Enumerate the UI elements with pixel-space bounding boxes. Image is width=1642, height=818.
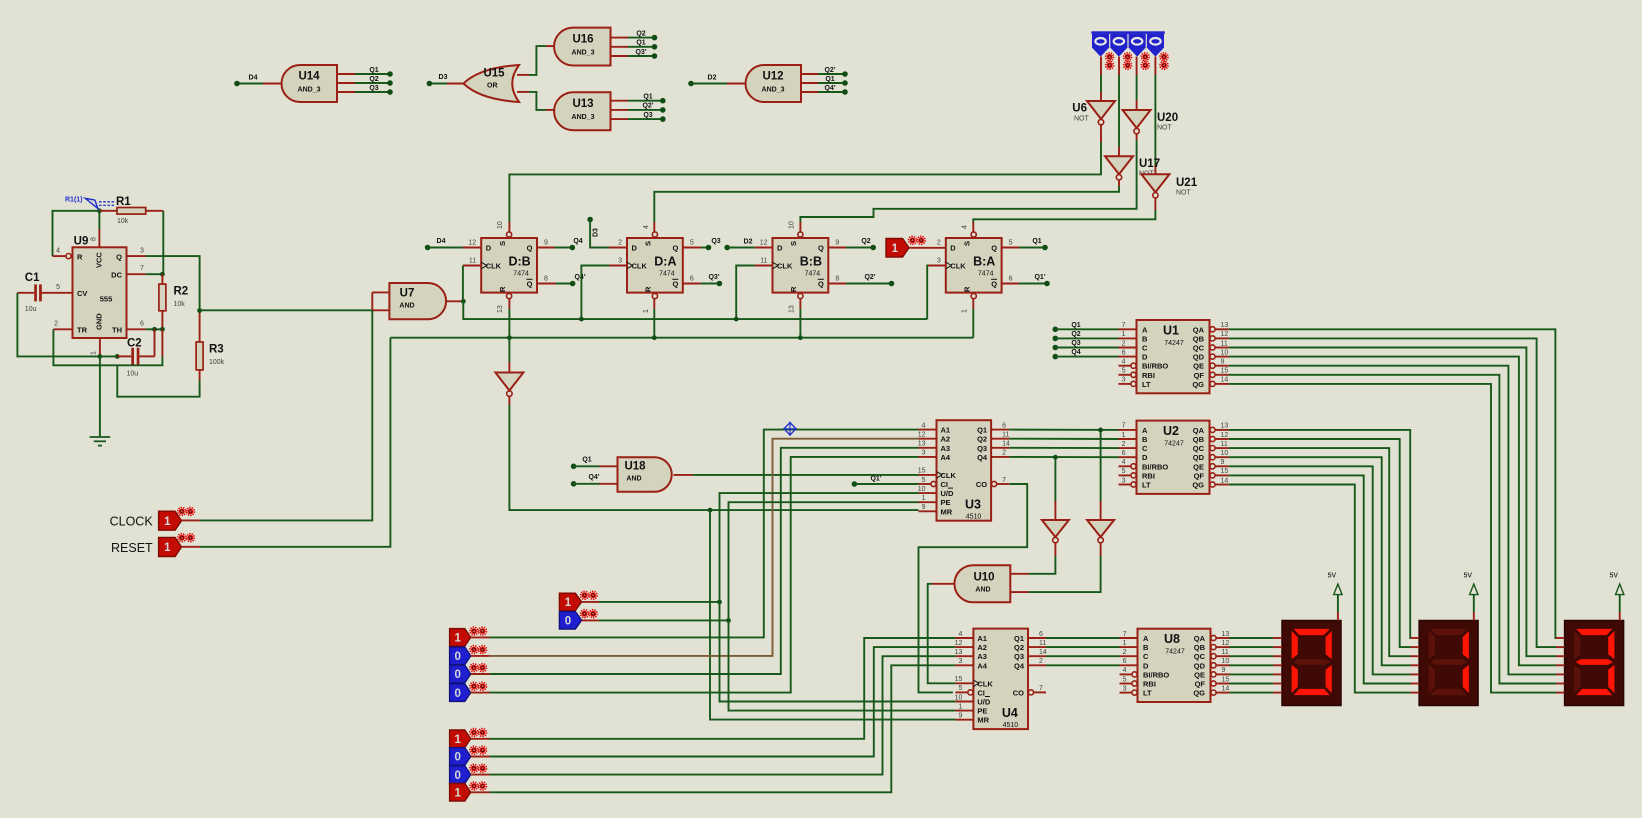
- svg-text:CLK: CLK: [977, 679, 993, 688]
- svg-text:9: 9: [1221, 359, 1225, 366]
- wire tag to U3 A4: [471, 457, 919, 693]
- flip-flop B:B (7474): [760, 221, 840, 313]
- svg-text:D:A: D:A: [654, 255, 676, 269]
- svg-text:R: R: [644, 286, 653, 292]
- terminal Q2-bar (B:B Qbar): [828, 274, 894, 287]
- svg-text:2: 2: [618, 240, 622, 247]
- wire B:B CLK riser: [736, 266, 772, 320]
- svg-text:74247: 74247: [1165, 649, 1185, 656]
- svg-text:15: 15: [1221, 368, 1229, 375]
- svg-text:6: 6: [1002, 422, 1006, 429]
- logic tag 0 (U3 A2): [450, 646, 487, 665]
- wire left NOT to U10 input 1: [1010, 543, 1055, 574]
- svg-text:Q: Q: [991, 280, 997, 289]
- svg-text:Q1: Q1: [1071, 322, 1080, 329]
- svg-text:7: 7: [1122, 423, 1126, 430]
- svg-text:4: 4: [1122, 359, 1126, 366]
- svg-text:7: 7: [1039, 685, 1043, 692]
- svg-text:U18: U18: [624, 461, 646, 473]
- svg-text:Q: Q: [116, 252, 122, 261]
- wire DIP cell2 to U17: [1118, 57, 1120, 157]
- wire RESET to reset line: [182, 338, 391, 547]
- svg-text:11: 11: [1222, 649, 1229, 656]
- svg-text:2: 2: [1123, 649, 1127, 656]
- svg-text:U16: U16: [572, 34, 593, 46]
- decoder U8 (74247): [1120, 629, 1230, 702]
- svg-text:D2: D2: [744, 239, 753, 246]
- timer U9 (555): [54, 236, 144, 356]
- svg-text:Q1: Q1: [643, 94, 652, 101]
- power 5V display 1: [1328, 573, 1342, 621]
- wire D:B CLK riser: [463, 266, 481, 302]
- svg-text:11: 11: [1002, 432, 1009, 439]
- svg-text:1: 1: [565, 597, 572, 609]
- svg-text:5V: 5V: [1609, 573, 1618, 580]
- svg-text:13: 13: [788, 305, 795, 313]
- svg-text:Q2: Q2: [861, 238, 870, 245]
- svg-text:14: 14: [1221, 477, 1229, 484]
- svg-text:10k: 10k: [174, 301, 186, 308]
- svg-text:6: 6: [1122, 450, 1126, 457]
- svg-text:Q2': Q2': [864, 274, 875, 281]
- svg-text:A2: A2: [941, 435, 951, 444]
- svg-text:1: 1: [922, 495, 926, 502]
- svg-text:Q1: Q1: [1032, 238, 1041, 245]
- svg-text:C: C: [1142, 444, 1148, 453]
- svg-text:3: 3: [1122, 477, 1126, 484]
- svg-text:Q1: Q1: [636, 40, 645, 47]
- wire Q pin 3 to R3 top node: [127, 256, 200, 310]
- svg-text:QA: QA: [1193, 426, 1205, 435]
- wire B:A R to reset line: [972, 299, 974, 338]
- svg-text:9: 9: [1222, 667, 1226, 674]
- wires U1 outputs to display 3: [1229, 329, 1565, 692]
- svg-text:CLK: CLK: [941, 471, 957, 480]
- svg-text:U7: U7: [400, 288, 415, 300]
- svg-text:10k: 10k: [117, 218, 129, 225]
- svg-text:Q: Q: [672, 244, 678, 253]
- svg-text:Q2: Q2: [977, 435, 987, 444]
- svg-text:AND: AND: [399, 303, 414, 310]
- svg-text:2: 2: [1039, 658, 1043, 665]
- svg-text:12: 12: [760, 240, 768, 247]
- svg-text:12: 12: [1221, 331, 1229, 338]
- svg-text:3: 3: [937, 258, 941, 265]
- svg-text:5: 5: [1122, 468, 1126, 475]
- AND gate U12 (AND_3, mirrored): [746, 65, 802, 102]
- svg-text:QG: QG: [1193, 689, 1205, 698]
- wire U16 output to U15 input: [517, 46, 554, 75]
- svg-text:15: 15: [1222, 676, 1230, 683]
- wire VCC pin 8: [98, 211, 100, 248]
- wire right NOT to U10 input 2: [1010, 543, 1100, 592]
- svg-text:U14: U14: [298, 71, 320, 83]
- svg-text:D4: D4: [249, 75, 258, 82]
- svg-text:Q: Q: [527, 244, 533, 253]
- svg-text:Q1: Q1: [977, 426, 987, 435]
- svg-text:2: 2: [54, 320, 58, 327]
- U7 input stubs: [372, 292, 389, 310]
- wire R3 bottom loop to TR line: [117, 365, 199, 396]
- svg-text:D2: D2: [708, 75, 717, 82]
- flip-flop B:A (7474): [937, 225, 1013, 313]
- svg-text:R: R: [789, 286, 798, 292]
- svg-text:OR: OR: [487, 83, 498, 90]
- svg-text:RBI: RBI: [1142, 371, 1155, 380]
- svg-text:R: R: [498, 286, 507, 292]
- logic tag 1 to B:A D input: [886, 236, 946, 257]
- terminal Q4-bar (D:B Qbar): [537, 274, 586, 287]
- svg-text:10: 10: [918, 486, 926, 493]
- svg-text:TR: TR: [77, 326, 88, 335]
- svg-text:LT: LT: [1142, 380, 1151, 389]
- svg-text:3: 3: [140, 247, 144, 254]
- logic tag 1 (U/D net): [559, 591, 597, 610]
- svg-text:CI: CI: [941, 480, 949, 489]
- svg-text:Q2: Q2: [1014, 643, 1024, 652]
- AND gate U10 (mirrored): [954, 565, 1010, 602]
- AND gate U16 (AND_3, mirrored): [554, 28, 610, 66]
- svg-text:S: S: [644, 241, 653, 246]
- wires U8 outputs to display 1: [1230, 638, 1274, 693]
- svg-text:14: 14: [1002, 441, 1010, 448]
- svg-text:13: 13: [497, 305, 504, 313]
- svg-text:QC: QC: [1193, 444, 1205, 453]
- svg-text:U/D: U/D: [941, 489, 955, 498]
- svg-text:6: 6: [1039, 631, 1043, 638]
- inverter U21 (NOT): [1141, 174, 1197, 198]
- 7-segment display 3 (digit 3): [1565, 621, 1624, 706]
- svg-text:A2: A2: [977, 643, 987, 652]
- terminal D2 (U12 output): [688, 75, 745, 87]
- capacitor C2 (10u): [117, 329, 154, 377]
- svg-text:14: 14: [1039, 649, 1047, 656]
- wire U6 output to D:B S pin: [509, 125, 1101, 232]
- svg-text:D: D: [486, 244, 492, 253]
- svg-text:R1(1): R1(1): [65, 197, 83, 204]
- wire PE net U3 to U4: [729, 502, 956, 710]
- svg-text:0: 0: [454, 651, 460, 663]
- wire D:B R to reset line: [508, 299, 510, 338]
- svg-text:Q2: Q2: [369, 76, 378, 83]
- svg-text:QB: QB: [1193, 435, 1205, 444]
- svg-text:74247: 74247: [1164, 340, 1184, 347]
- svg-text:5: 5: [958, 685, 962, 692]
- logic tag 1 (U4 A4): [450, 782, 487, 801]
- wires U4 outputs to U8 inputs: [1046, 638, 1120, 665]
- svg-text:3: 3: [922, 450, 926, 457]
- inverter U20 (NOT): [1123, 110, 1179, 134]
- svg-text:9: 9: [544, 240, 548, 247]
- wire U7 output junction: [447, 299, 466, 304]
- terminal Q3 (D:A Q): [683, 238, 721, 251]
- terminal D4 (U14 output): [234, 75, 281, 87]
- reset line B: [390, 335, 973, 340]
- terminal D3 (U15 output): [427, 74, 464, 86]
- svg-text:Q: Q: [818, 280, 824, 289]
- svg-text:U/D: U/D: [977, 698, 991, 707]
- svg-text:BI/RBO: BI/RBO: [1143, 670, 1169, 679]
- wire R1 node to R pin 4: [53, 211, 100, 259]
- svg-text:Q2': Q2': [824, 67, 835, 74]
- wire tag to U4 A1: [471, 638, 956, 739]
- svg-text:S: S: [498, 241, 507, 246]
- svg-text:AND: AND: [626, 476, 641, 483]
- svg-text:MR: MR: [977, 716, 989, 725]
- svg-text:5: 5: [1009, 240, 1013, 247]
- svg-text:R: R: [77, 252, 83, 261]
- wire tag to U4 A3: [471, 656, 956, 774]
- svg-text:Q4: Q4: [1071, 349, 1080, 356]
- terminal Q2 (B:B Q): [828, 238, 876, 251]
- flip-flop D:A (7474): [618, 225, 694, 313]
- DIP toggle arrows (red gear icons): [1106, 53, 1168, 70]
- svg-text:QB: QB: [1193, 334, 1205, 343]
- svg-text:QF: QF: [1195, 680, 1206, 689]
- wire R1 right to DC node: [162, 211, 164, 274]
- svg-text:D: D: [777, 244, 783, 253]
- wire MR line down to U4 MR: [710, 510, 956, 719]
- svg-text:AND_3: AND_3: [572, 114, 595, 121]
- svg-text:B:A: B:A: [973, 255, 995, 269]
- svg-text:7: 7: [1002, 477, 1006, 484]
- svg-text:QC: QC: [1193, 344, 1205, 353]
- svg-text:5: 5: [1123, 676, 1127, 683]
- svg-text:11: 11: [1221, 441, 1228, 448]
- svg-text:QB: QB: [1194, 643, 1206, 652]
- svg-text:QD: QD: [1193, 353, 1205, 362]
- OR gate U15 (mirrored): [464, 65, 520, 102]
- svg-text:NOT: NOT: [1074, 116, 1090, 123]
- svg-text:0: 0: [454, 770, 460, 782]
- svg-text:U17: U17: [1139, 158, 1160, 170]
- wire B:A CLK riser: [927, 266, 946, 320]
- wire TR pin 2 loop: [53, 329, 162, 365]
- svg-text:5V: 5V: [1328, 573, 1337, 580]
- svg-text:6: 6: [1122, 349, 1126, 356]
- svg-text:CLK: CLK: [632, 262, 648, 271]
- clock line A: [463, 301, 927, 321]
- svg-text:BI/RBO: BI/RBO: [1142, 462, 1168, 471]
- resistor R3 (100k): [196, 311, 225, 381]
- wires U2 outputs to display 2: [1229, 430, 1419, 693]
- svg-text:4: 4: [643, 225, 650, 229]
- wire GND pin 1: [98, 338, 103, 359]
- svg-text:R: R: [963, 286, 972, 292]
- svg-text:9: 9: [835, 240, 839, 247]
- wire U3 Q4 line to left NOT: [1054, 457, 1056, 520]
- svg-text:2: 2: [937, 240, 941, 247]
- svg-text:6: 6: [140, 320, 144, 327]
- capacitor C1 (10u): [17, 272, 72, 313]
- wire U18 output to U3 CLK: [674, 474, 919, 476]
- inverter below D:B (unlabeled NOT): [495, 338, 523, 397]
- tag CLOCK: [110, 507, 195, 530]
- svg-text:4: 4: [962, 225, 969, 229]
- svg-text:AND_3: AND_3: [298, 87, 321, 94]
- terminal Q1 (B:A Q): [1002, 238, 1048, 251]
- svg-text:7474: 7474: [513, 271, 529, 278]
- svg-text:Q1: Q1: [369, 67, 378, 74]
- svg-text:13: 13: [955, 649, 963, 656]
- svg-text:1: 1: [1122, 331, 1126, 338]
- wire inverter output to MR line: [509, 396, 918, 512]
- terminal Q3-bar (D:A Qbar): [683, 274, 722, 287]
- svg-text:D: D: [950, 244, 956, 253]
- svg-text:10: 10: [955, 694, 963, 701]
- svg-text:10: 10: [1221, 450, 1229, 457]
- svg-text:RBI: RBI: [1142, 471, 1155, 480]
- svg-text:6: 6: [1123, 658, 1127, 665]
- svg-text:U12: U12: [762, 71, 783, 83]
- svg-text:74247: 74247: [1164, 441, 1184, 448]
- decoder U2 (74247): [1119, 421, 1229, 494]
- U13 input pins Q1 Q2-bar Q3: [611, 94, 666, 122]
- resistor R2 (10k): [159, 274, 188, 329]
- svg-text:0: 0: [454, 669, 460, 681]
- svg-text:CI: CI: [977, 688, 985, 697]
- wire U10 output to U4 CLK: [928, 584, 956, 684]
- wire ground rail to C2: [100, 354, 120, 359]
- svg-text:PE: PE: [941, 498, 951, 507]
- svg-text:CLOCK: CLOCK: [110, 515, 154, 529]
- svg-text:C1: C1: [25, 272, 40, 284]
- terminal D4 to D:B D input: [425, 238, 481, 251]
- svg-text:B:B: B:B: [800, 255, 822, 269]
- decoder U1 (74247): [1119, 320, 1229, 393]
- svg-text:AND: AND: [975, 586, 990, 593]
- svg-text:QA: QA: [1193, 325, 1205, 334]
- tag RESET: [111, 534, 194, 557]
- svg-text:D:B: D:B: [508, 255, 530, 269]
- svg-text:3: 3: [958, 658, 962, 665]
- svg-text:U4: U4: [1002, 706, 1018, 720]
- svg-text:U20: U20: [1157, 112, 1178, 124]
- svg-text:0: 0: [565, 616, 571, 628]
- svg-text:Q1': Q1': [870, 476, 881, 483]
- svg-text:4510: 4510: [1003, 722, 1019, 729]
- svg-text:CO: CO: [1013, 688, 1024, 697]
- svg-text:A1: A1: [941, 426, 951, 435]
- svg-text:A4: A4: [941, 453, 951, 462]
- svg-text:7: 7: [1123, 631, 1127, 638]
- logic tag 0 (U3 A3): [450, 664, 487, 683]
- svg-text:4: 4: [922, 422, 926, 429]
- svg-text:11: 11: [469, 258, 476, 265]
- wire D:A R to reset line: [653, 299, 655, 338]
- svg-text:Q3': Q3': [708, 274, 719, 281]
- svg-text:12: 12: [955, 640, 963, 647]
- svg-text:1: 1: [454, 734, 461, 746]
- svg-text:Q2: Q2: [1071, 331, 1080, 338]
- AND gate U18: [618, 457, 672, 492]
- svg-text:NOT: NOT: [1176, 190, 1192, 197]
- 7-segment display 2 (digit 1): [1419, 621, 1478, 706]
- svg-text:15: 15: [1221, 468, 1229, 475]
- wire U21 output to B:A S pin: [973, 198, 1155, 233]
- logic tag 1 (U3 A1): [450, 627, 487, 646]
- svg-text:QD: QD: [1194, 661, 1206, 670]
- svg-text:CO: CO: [976, 480, 987, 489]
- node R1/VCC junction: [97, 208, 102, 213]
- U16 input pins Q2 Q1 Q3-bar: [611, 30, 658, 58]
- display 1 pin stubs from U8: [1273, 638, 1282, 693]
- svg-text:Q2: Q2: [636, 30, 645, 37]
- svg-text:8: 8: [544, 276, 548, 283]
- svg-text:B: B: [1142, 435, 1148, 444]
- svg-text:10u: 10u: [127, 370, 139, 377]
- svg-text:A3: A3: [941, 444, 951, 453]
- svg-text:DC: DC: [111, 270, 122, 279]
- inverter U17 (NOT): [1105, 156, 1160, 180]
- wire U17 output to D:A S pin: [654, 180, 1119, 232]
- wire tag to U4 A2: [471, 647, 956, 756]
- svg-text:7: 7: [140, 265, 144, 272]
- wire tag to U3 A2: [471, 439, 919, 656]
- svg-text:GND: GND: [95, 313, 104, 330]
- svg-text:1: 1: [1122, 432, 1126, 439]
- svg-text:3: 3: [1123, 685, 1127, 692]
- svg-text:Q: Q: [991, 244, 997, 253]
- svg-text:12: 12: [1222, 640, 1230, 647]
- svg-text:Q1: Q1: [582, 457, 591, 464]
- svg-text:4: 4: [56, 247, 60, 254]
- svg-text:Q1: Q1: [825, 76, 834, 83]
- svg-text:AND_3: AND_3: [572, 50, 595, 57]
- wire DIP cell4 to U21: [1154, 57, 1156, 175]
- svg-text:555: 555: [100, 295, 113, 304]
- terminal Q1-bar to U3 CI: [852, 476, 919, 487]
- svg-text:0: 0: [454, 688, 460, 700]
- svg-text:A4: A4: [977, 661, 987, 670]
- wire tag to U4 A4: [471, 665, 956, 792]
- terminal Q1 to U18: [571, 457, 618, 470]
- U1 input terminals Q1-Q4: [1053, 322, 1119, 360]
- wire B:B R to reset line: [799, 299, 801, 338]
- svg-text:14: 14: [1221, 377, 1229, 384]
- svg-text:7474: 7474: [978, 271, 994, 278]
- svg-text:11: 11: [760, 258, 767, 265]
- wire TH pin 6: [127, 327, 165, 332]
- svg-text:Q4': Q4': [574, 274, 585, 281]
- wire C1 to ground rail: [17, 293, 100, 357]
- svg-text:5: 5: [56, 284, 60, 291]
- terminal D2 to B:B D input: [724, 239, 772, 251]
- wire U13 output to U15 input: [517, 92, 554, 110]
- svg-text:D3: D3: [439, 74, 448, 81]
- svg-text:Q3: Q3: [1014, 652, 1024, 661]
- svg-text:U15: U15: [483, 68, 505, 80]
- svg-text:1: 1: [164, 542, 171, 554]
- svg-text:Q3: Q3: [1071, 340, 1080, 347]
- wire tag to U3 A3: [471, 448, 919, 674]
- svg-text:4510: 4510: [966, 514, 982, 521]
- svg-text:U1: U1: [1163, 324, 1179, 338]
- svg-text:R2: R2: [174, 285, 189, 297]
- svg-text:7: 7: [1122, 322, 1126, 329]
- wire tag to U3 A1: [471, 430, 919, 638]
- svg-text:9: 9: [922, 504, 926, 511]
- svg-text:11: 11: [1221, 340, 1228, 347]
- svg-text:10: 10: [1222, 658, 1230, 665]
- AND gate U13 (AND_3, mirrored): [554, 92, 610, 130]
- wire 555 output to CLOCK net: [200, 309, 373, 311]
- probe R1(1) marker: [65, 197, 114, 209]
- svg-text:13: 13: [1221, 322, 1229, 329]
- svg-text:Q3': Q3': [635, 49, 646, 56]
- svg-text:Q4: Q4: [1014, 661, 1025, 670]
- svg-text:12: 12: [918, 432, 926, 439]
